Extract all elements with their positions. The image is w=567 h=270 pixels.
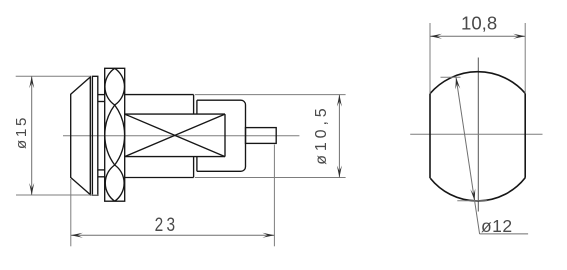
dim 10_8 arrow right <box>513 34 525 39</box>
dim d15 line <box>31 76 33 195</box>
centerline left view <box>63 135 299 137</box>
dim 10_8 arrow left <box>430 34 442 39</box>
right view horizontal centerline <box>410 133 542 135</box>
knurl wave left <box>105 68 125 201</box>
flange washer <box>92 76 97 195</box>
dim d10_5 ext top <box>195 94 346 96</box>
svg-text:10,8: 10,8 <box>461 12 497 33</box>
dim d10_5 line <box>338 95 340 178</box>
barrel end face bottom <box>193 157 195 178</box>
neck line bottom inner <box>98 169 105 171</box>
terminal pin <box>246 128 277 144</box>
rear housing shoulder bottom <box>196 157 198 172</box>
dim d12 arrow top <box>455 77 460 89</box>
barrel bottom edge <box>125 177 194 179</box>
rear housing shoulder top <box>196 100 198 114</box>
right view vertical centerline <box>477 58 479 212</box>
thread box <box>125 114 225 157</box>
knurled nut body <box>105 68 125 201</box>
rear housing outline <box>197 100 246 171</box>
dim d12 top tick <box>441 76 461 78</box>
dim d15 ext bottom <box>16 194 98 196</box>
dim 23 line <box>71 234 275 236</box>
dim d12 bottom tick <box>457 200 487 202</box>
barrel end face top <box>193 95 195 115</box>
dim d15 arrow up <box>29 76 34 88</box>
dim d10_5 arrow up <box>337 95 342 107</box>
dim d15 ext top <box>16 75 91 77</box>
dim 10_8 line <box>430 35 525 37</box>
dim d10_5 ext bottom <box>195 177 346 179</box>
dim 10_8 ext right <box>524 23 526 93</box>
thread box diagonal 2 <box>125 114 225 157</box>
neck line top inner <box>98 101 105 103</box>
dim d10_5 arrow down <box>337 166 342 178</box>
body top arc <box>430 72 525 94</box>
dim d12 arrow bottom <box>470 189 475 201</box>
dim d15 arrow down <box>29 183 34 195</box>
svg-text:ø12: ø12 <box>481 216 513 236</box>
lens head (trapezoid) <box>71 77 91 195</box>
dim 23 ext right <box>273 145 275 247</box>
neck line top outer <box>98 94 105 96</box>
body right flat <box>524 93 526 178</box>
dim 23 arrow left <box>71 233 83 238</box>
svg-text:ø15: ø15 <box>13 115 30 149</box>
body left flat <box>429 94 431 179</box>
dim d12 leader <box>480 233 528 235</box>
dim 23 ext left <box>70 179 72 246</box>
knurl wave right <box>105 68 125 201</box>
dim 10_8 ext left <box>429 23 431 94</box>
dim d12 slant line <box>456 77 480 234</box>
svg-text:ø10,5: ø10,5 <box>313 104 330 164</box>
dim 23 arrow right <box>262 233 274 238</box>
neck line bottom outer <box>98 176 105 178</box>
body bottom arc <box>430 178 525 201</box>
thread box diagonal 1 <box>125 114 225 157</box>
svg-text:23: 23 <box>155 213 179 235</box>
barrel top edge <box>125 94 194 96</box>
